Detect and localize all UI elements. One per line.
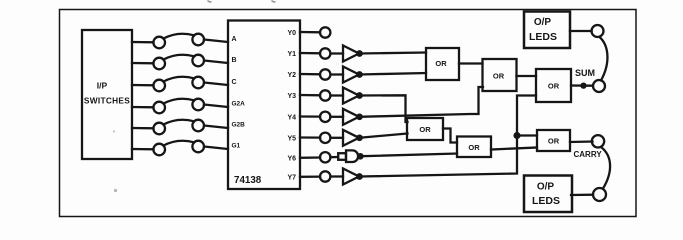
junction dot Y3 xyxy=(357,93,361,97)
output bubble Y4 xyxy=(320,112,330,122)
SUM point circle xyxy=(593,80,605,92)
output bubble Y0 xyxy=(320,27,330,37)
wire Y3 bubble to buffer xyxy=(331,94,344,96)
svg-text:OR: OR xyxy=(493,72,505,81)
svg-text:I/P: I/P xyxy=(97,81,108,91)
svg-text:Y7: Y7 xyxy=(287,175,296,182)
svg-text:Y2: Y2 xyxy=(287,72,296,79)
buffer Y7 xyxy=(343,169,359,185)
wire switch row4 left lead xyxy=(132,106,154,109)
wire switch row2 left lead xyxy=(132,62,154,65)
wire switch row1 left lead xyxy=(132,41,154,44)
wire Y5 to OR4 input 2 xyxy=(360,134,408,138)
scan artifact dot mid left xyxy=(113,130,115,132)
wire riser to OR6 input 1 xyxy=(517,134,537,136)
wire Y4 bubble to buffer xyxy=(331,116,344,118)
wire Y6 lead xyxy=(300,156,320,159)
svg-text:OR: OR xyxy=(548,137,560,146)
buffer Y6 (square style) xyxy=(338,150,358,162)
wire switch row2 right lead xyxy=(204,61,228,64)
wire Y2 bubble to buffer xyxy=(331,73,344,75)
O/P LEDS box bottom xyxy=(524,176,572,213)
OR gate OR6 xyxy=(537,130,570,151)
wire OR5 out to OR6 input 2 xyxy=(491,148,537,150)
output bubble Y5 xyxy=(320,133,330,143)
wire curve LED1 to SUM point xyxy=(600,37,608,81)
buffer (inverted output) Y1 xyxy=(343,46,359,62)
svg-text:O/P: O/P xyxy=(534,17,552,28)
wire switch row3 right lead xyxy=(204,83,228,86)
IC 74138 U1 xyxy=(228,21,300,190)
scan artifact mark top 1 xyxy=(208,1,212,2)
O/P LEDS box top xyxy=(524,12,570,49)
OR gate OR1 xyxy=(426,48,459,80)
wire Y2 lead xyxy=(300,73,320,76)
switch SW6 xyxy=(153,141,204,156)
svg-text:Y3: Y3 xyxy=(287,93,296,100)
wire Y1 to OR1 input 1 xyxy=(360,53,427,54)
svg-text:OR: OR xyxy=(435,59,447,68)
svg-text:74138: 74138 xyxy=(234,175,262,186)
wire Y2 to OR1 input 2 xyxy=(360,73,427,75)
buffer Y4 xyxy=(343,109,359,125)
svg-text:Y1: Y1 xyxy=(287,51,296,58)
junction dot SUM lead xyxy=(582,84,586,88)
junction dot Y6 xyxy=(358,154,362,158)
buffer Y2 xyxy=(343,67,359,83)
junction dot Y2 xyxy=(357,72,361,76)
switch SW3 xyxy=(153,77,204,92)
wire O/P LEDS bottom to LED2 xyxy=(571,194,593,197)
wire switch row6 left lead xyxy=(132,148,154,151)
wire OR2 out to OR3 xyxy=(517,75,537,77)
LED circle top xyxy=(592,25,604,37)
junction dot Y7 xyxy=(357,174,361,178)
wire switch row4 right lead xyxy=(204,105,228,108)
wire O/P LEDS top to LED1 xyxy=(570,30,592,32)
svg-text:O/P: O/P xyxy=(537,182,555,193)
wire Y1 bubble to buffer xyxy=(331,52,344,54)
wire Y7 bubble to buffer xyxy=(331,175,344,177)
svg-text:OR: OR xyxy=(548,82,560,91)
wire Y6 to OR5 input 2 xyxy=(362,154,457,157)
switch SW4 xyxy=(153,99,204,114)
output bubble Y2 xyxy=(320,69,330,79)
wire OR3 out to SUM led xyxy=(571,84,592,86)
I/P switches box xyxy=(82,30,132,159)
wire OR4 out to OR5 xyxy=(443,129,457,143)
CARRY point circle xyxy=(592,135,604,147)
wire Y0 lead xyxy=(300,31,320,34)
svg-text:OR: OR xyxy=(419,125,431,134)
wire Y7 to riser xyxy=(360,96,537,177)
buffer Y5 xyxy=(343,130,359,146)
wire OR6 out to CARRY led xyxy=(570,140,593,143)
wire switch row6 right lead xyxy=(204,147,228,150)
switch SW5 xyxy=(153,120,204,135)
svg-text:OR: OR xyxy=(468,143,480,152)
svg-text:SWITCHES: SWITCHES xyxy=(84,96,130,106)
output bubble Y7 xyxy=(320,171,330,181)
junction dot Y7 riser to OR6 xyxy=(515,133,520,138)
switch SW1 xyxy=(153,34,204,49)
junction dot Y1 xyxy=(357,51,361,55)
OR gate OR4 xyxy=(407,118,443,140)
wire Y4 to OR2 bottom input xyxy=(360,87,484,117)
svg-text:Y6: Y6 xyxy=(287,156,296,163)
svg-text:B: B xyxy=(232,57,237,64)
wire switch row5 right lead xyxy=(204,126,228,129)
svg-text:G2B: G2B xyxy=(232,122,246,129)
svg-text:LEDS: LEDS xyxy=(532,195,560,207)
wire Y5 lead xyxy=(300,136,320,138)
svg-text:G1: G1 xyxy=(232,143,241,150)
wire OR1 out to OR2 xyxy=(459,62,483,64)
LED circle bottom xyxy=(593,188,606,201)
svg-text:Y0: Y0 xyxy=(287,30,296,37)
buffer Y3 xyxy=(343,88,359,104)
wire Y3 lead xyxy=(300,94,320,97)
wire switch row3 left lead xyxy=(132,84,154,87)
OR gate OR2 xyxy=(483,59,517,91)
output bubble Y1 xyxy=(320,48,330,58)
wire Y5 bubble to buffer xyxy=(331,137,344,139)
wire switch row5 left lead xyxy=(132,127,154,130)
wire Y4 lead xyxy=(300,115,320,117)
wire Y7 lead xyxy=(300,175,320,177)
svg-text:Y4: Y4 xyxy=(287,115,296,122)
wire switch row1 right lead xyxy=(204,40,228,43)
outer border frame xyxy=(60,10,637,217)
output bubble Y6 xyxy=(320,152,330,162)
wire Y6 bubble to buffer xyxy=(331,156,339,158)
wire Y3 to OR4 input 1 xyxy=(360,95,408,122)
scan artifact dot bottom left xyxy=(114,189,117,192)
OR gate OR3 xyxy=(536,69,571,102)
svg-text:A: A xyxy=(232,36,237,43)
svg-text:SUM: SUM xyxy=(575,68,595,78)
wire Y1 lead xyxy=(300,52,320,55)
svg-text:LEDS: LEDS xyxy=(529,31,557,43)
junction dot Y4 xyxy=(357,115,361,119)
OR gate OR5 xyxy=(457,137,491,158)
switch SW2 xyxy=(153,55,204,70)
scan artifact mark top 2 xyxy=(272,1,276,2)
svg-text:Y5: Y5 xyxy=(287,136,296,143)
svg-text:CARRY: CARRY xyxy=(574,150,603,159)
svg-text:G2A: G2A xyxy=(232,101,246,108)
wire curve CARRY to LED2 xyxy=(601,147,610,189)
junction dot Y5 xyxy=(357,136,361,140)
svg-text:C: C xyxy=(232,79,237,86)
output bubble Y3 xyxy=(320,90,330,100)
